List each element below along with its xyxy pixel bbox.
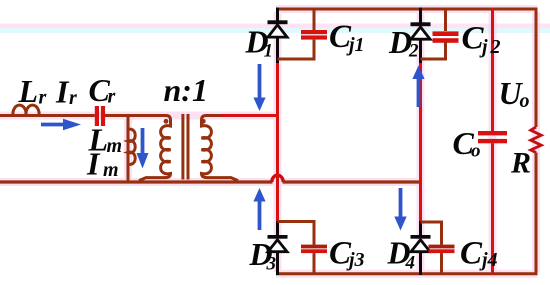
wire bottom output rail xyxy=(276,272,538,275)
svg-text:r: r xyxy=(108,86,116,108)
wire hop (no connection) over left leg xyxy=(272,175,283,182)
label Im xyxy=(86,146,119,182)
current arrow Ir xyxy=(41,119,81,131)
capacitor Co branch xyxy=(478,8,507,276)
wire right leg (node B vertical) xyxy=(419,63,422,223)
wire top output rail xyxy=(276,8,538,11)
svg-text:j1: j1 xyxy=(346,34,365,56)
svg-text:2: 2 xyxy=(408,41,419,62)
transformer secondary winding xyxy=(202,116,239,181)
wire secondary top to bridge node A xyxy=(206,114,278,117)
svg-text:R: R xyxy=(510,147,531,180)
svg-text:o: o xyxy=(471,141,481,162)
label Cr xyxy=(89,72,116,108)
resistor R branch xyxy=(531,8,542,276)
capacitor Cj4 branch xyxy=(421,222,455,275)
svg-text:L: L xyxy=(18,73,39,109)
svg-text:j3: j3 xyxy=(346,249,365,271)
svg-text:3: 3 xyxy=(266,254,277,275)
svg-text:o: o xyxy=(520,90,530,112)
label D3 xyxy=(249,236,277,275)
label Uo xyxy=(499,75,530,112)
label n:1 xyxy=(164,72,208,108)
current arrow D3 (up) xyxy=(253,188,265,230)
label Ir xyxy=(55,74,77,110)
current arrow D2 (up) xyxy=(412,66,424,108)
wire left leg (node A vertical) xyxy=(276,63,279,223)
svg-text:r: r xyxy=(39,87,47,109)
label Cj1 xyxy=(329,19,365,56)
wire middle rail (bottom of primary/secondary) xyxy=(0,180,421,183)
diode D2 xyxy=(411,8,431,65)
transformer primary polarity dot xyxy=(164,119,169,124)
label D1 xyxy=(245,24,274,62)
diode D3 xyxy=(268,221,288,275)
label Lm xyxy=(88,122,123,158)
svg-text:n:1: n:1 xyxy=(164,72,208,108)
inductor Lr xyxy=(13,105,39,115)
label Cj2 xyxy=(462,21,501,59)
current arrow D4 (down) xyxy=(394,188,406,231)
transformer secondary polarity dot xyxy=(201,119,206,124)
diode D4 xyxy=(411,221,431,275)
svg-text:4: 4 xyxy=(405,253,416,274)
transformer primary winding xyxy=(139,116,171,181)
svg-text:2: 2 xyxy=(490,36,501,58)
capacitor Cj1 branch xyxy=(278,8,328,60)
svg-text:j4: j4 xyxy=(479,249,498,271)
svg-text:m: m xyxy=(103,159,119,181)
current arrow D1 (down) xyxy=(253,64,265,111)
svg-text:1: 1 xyxy=(264,41,274,62)
label D4 xyxy=(387,235,416,274)
svg-text:m: m xyxy=(107,135,123,157)
current arrow Im (down) xyxy=(137,128,149,169)
jpeg artifact bands xyxy=(0,24,550,34)
svg-text:I: I xyxy=(86,146,101,182)
svg-text:I: I xyxy=(55,74,70,110)
capacitor Cr xyxy=(95,106,105,126)
label Co xyxy=(453,125,481,162)
diode D1 xyxy=(268,8,288,65)
transformer core xyxy=(183,114,188,180)
capacitor Cj3 branch xyxy=(278,222,328,276)
svg-text:C: C xyxy=(460,236,483,272)
inductor Lm xyxy=(128,116,135,182)
label D2 xyxy=(388,24,419,62)
label R xyxy=(510,147,531,180)
label Lr xyxy=(18,73,47,109)
wire input top rail left xyxy=(0,114,166,117)
svg-text:r: r xyxy=(69,87,77,109)
label Cj4 xyxy=(460,236,498,272)
label Cj3 xyxy=(329,236,365,272)
capacitor Cj2 branch xyxy=(421,8,459,60)
